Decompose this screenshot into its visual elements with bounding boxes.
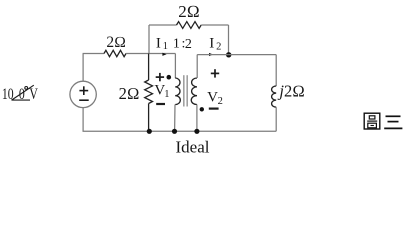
label V1 plus sign — [156, 73, 164, 81]
wire node B to inductor branch — [229, 54, 277, 56]
wire top loop right drop — [228, 25, 230, 55]
transformer T1 primary winding — [175, 78, 180, 105]
label V2 plus sign — [211, 69, 219, 77]
junction dot bottom R2 — [147, 129, 152, 134]
wire top left segment — [83, 53, 104, 55]
svg-text:2Ω: 2Ω — [284, 82, 305, 101]
junction dot bottom secondary — [194, 129, 199, 134]
label V2 minus sign — [209, 107, 219, 109]
svg-text:1: 1 — [164, 89, 169, 100]
wire top loop right horizontal — [201, 24, 228, 26]
svg-text:2Ω: 2Ω — [106, 34, 126, 51]
label figure caption: CJK 圖 — [364, 113, 380, 129]
transformer secondary polarity dot — [200, 107, 204, 111]
label V1 minus sign — [156, 103, 165, 105]
current I2 arrowhead — [209, 53, 213, 56]
svg-text:1: 1 — [163, 41, 168, 52]
current I1 arrowhead — [162, 53, 166, 56]
angle symbol of phasor — [12, 85, 34, 100]
wire secondary top lead — [196, 55, 198, 78]
wire secondary bottom lead — [196, 105, 198, 132]
svg-text:2: 2 — [218, 96, 223, 107]
svg-text:1: 1 — [173, 37, 180, 52]
resistor R1 series 2ohm zigzag — [104, 50, 126, 56]
junction dot bottom primary — [172, 129, 177, 134]
voltage source VS circle — [70, 81, 96, 107]
wire secondary top to node B — [197, 54, 229, 56]
svg-text:Ideal: Ideal — [176, 137, 210, 156]
voltage source minus sign — [79, 99, 89, 101]
transformer T1 secondary winding — [191, 78, 197, 105]
transformer T1 core lines — [184, 75, 187, 106]
svg-text:V: V — [207, 89, 218, 105]
node B junction dot — [226, 52, 231, 57]
node A junction vertical riser to top loop — [148, 25, 150, 54]
wire inductor bottom lead — [275, 107, 277, 131]
inductor L1 j2ohm coil — [272, 86, 277, 107]
wire inductor top lead — [275, 55, 277, 86]
wire source bottom lead — [82, 108, 84, 132]
svg-text:2Ω: 2Ω — [119, 84, 140, 103]
resistor R3 top feedback 2ohm zigzag — [177, 22, 202, 29]
wire primary bottom lead — [174, 105, 176, 132]
voltage source plus sign — [79, 86, 88, 95]
svg-text:I: I — [156, 36, 161, 52]
wire source top lead — [82, 54, 84, 82]
svg-text:2Ω: 2Ω — [178, 2, 200, 21]
svg-text:2: 2 — [185, 37, 192, 52]
wire bottom return — [83, 130, 277, 132]
resistor R2 parallel 2ohm vertical zigzag — [145, 54, 153, 132]
wire top loop left horizontal — [149, 24, 177, 26]
svg-text:2: 2 — [216, 41, 221, 52]
wire primary top lead — [174, 54, 176, 79]
label figure caption: CJK 三 — [384, 116, 402, 128]
transformer primary polarity dot — [167, 75, 172, 80]
wire from R1 to node A — [126, 53, 175, 55]
svg-text:I: I — [209, 36, 214, 52]
label source value 10 angle 0 deg V — [2, 85, 38, 102]
